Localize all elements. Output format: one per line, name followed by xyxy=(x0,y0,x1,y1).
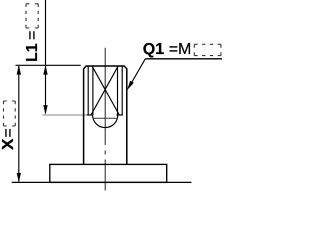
svg-text:X: X xyxy=(0,138,17,150)
svg-text:=: = xyxy=(0,128,17,137)
svg-text:=: = xyxy=(24,31,41,40)
svg-text:L1: L1 xyxy=(24,43,41,62)
svg-text:Q1: Q1 xyxy=(143,41,164,58)
svg-text:=M: =M xyxy=(169,41,192,58)
